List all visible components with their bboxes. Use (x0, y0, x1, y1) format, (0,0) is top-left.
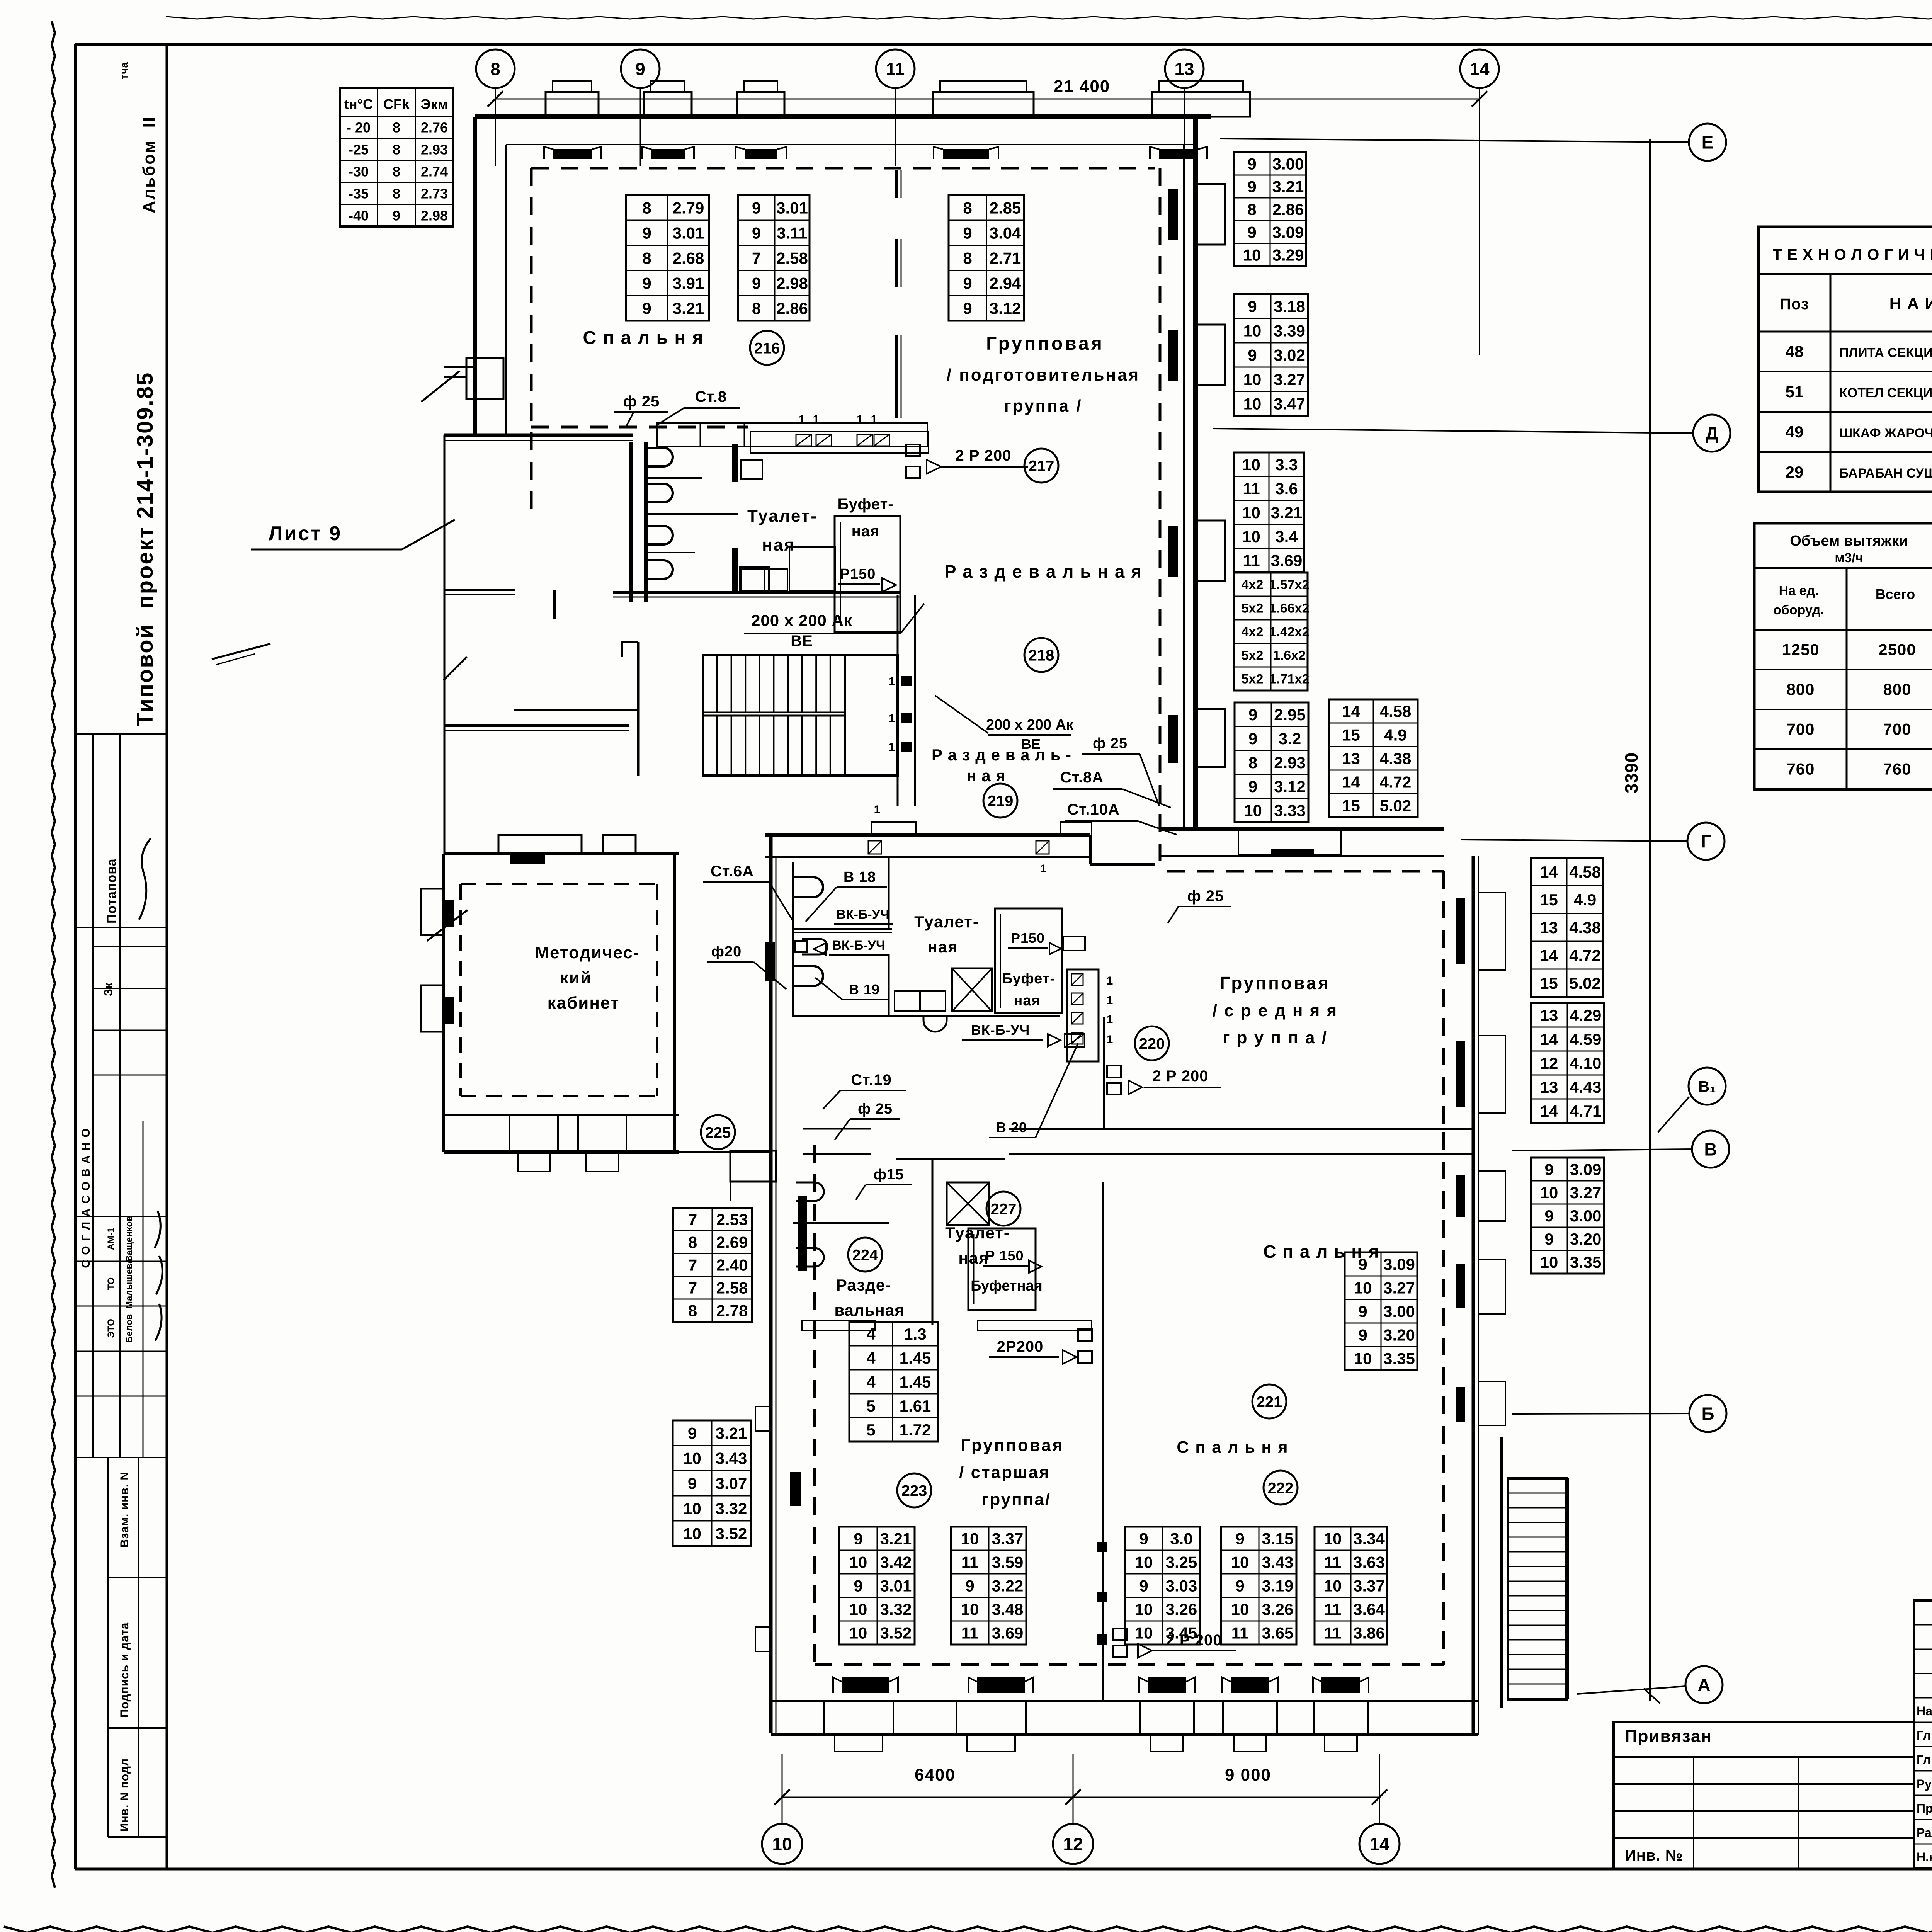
svg-text:1.61: 1.61 (900, 1397, 931, 1415)
svg-text:5х2: 5х2 (1242, 672, 1264, 687)
svg-text:2.40: 2.40 (716, 1256, 748, 1274)
svg-text:г р у п п а /: г р у п п а / (1223, 1028, 1328, 1047)
svg-text:Альбом II: Альбом II (139, 116, 158, 213)
svg-text:3.25: 3.25 (1166, 1553, 1197, 1571)
svg-text:1.72: 1.72 (900, 1421, 931, 1439)
bottom wall windows (824, 1701, 893, 1735)
svg-text:3.91: 3.91 (673, 274, 704, 293)
svg-text:Привязан: Привязан (1625, 1727, 1712, 1746)
svg-text:ПЛИТА СЕКЦИОННАЯ ПЭСМ-4ШБ: ПЛИТА СЕКЦИОННАЯ ПЭСМ-4ШБ (1839, 345, 1932, 360)
svg-text:2.53: 2.53 (716, 1211, 748, 1229)
svg-text:ВК-Б-УЧ: ВК-Б-УЧ (971, 1022, 1030, 1038)
svg-text:9: 9 (752, 199, 761, 217)
svg-text:9: 9 (963, 299, 972, 318)
svg-text:2 Р 200: 2 Р 200 (1153, 1068, 1209, 1085)
left wall radiator long (227) (798, 1196, 807, 1271)
svg-text:11: 11 (1243, 480, 1260, 498)
svg-text:9: 9 (752, 274, 761, 293)
svg-text:9: 9 (642, 224, 651, 242)
svg-text:СFk: СFk (383, 96, 410, 112)
svg-text:С п а л ь н я: С п а л ь н я (583, 328, 704, 348)
axis 14 (bottom) (1359, 1824, 1400, 1864)
svg-text:10: 10 (1242, 456, 1260, 474)
svg-text:4.43: 4.43 (1570, 1078, 1602, 1096)
svg-text:3.21: 3.21 (880, 1530, 912, 1548)
svg-text:3.35: 3.35 (1570, 1253, 1602, 1271)
svg-text:3.86: 3.86 (1353, 1624, 1385, 1642)
svg-text:2.58: 2.58 (716, 1279, 748, 1297)
svg-text:Нач.отд.: Нач.отд. (1917, 1704, 1932, 1718)
svg-text:9: 9 (1544, 1230, 1553, 1248)
svg-text:1: 1 (1040, 862, 1047, 875)
svg-text:1.6х2: 1.6х2 (1273, 648, 1306, 663)
svg-text:3.63: 3.63 (1353, 1553, 1385, 1571)
svg-text:9: 9 (635, 59, 645, 79)
svg-text:220: 220 (1139, 1035, 1165, 1052)
svg-text:8: 8 (393, 142, 400, 158)
svg-text:БАРАБАН СУШИЛЬНЫЙ КП-307: БАРАБАН СУШИЛЬНЫЙ КП-307 (1839, 466, 1932, 481)
svg-text:3.45: 3.45 (1166, 1624, 1197, 1642)
svg-text:4.59: 4.59 (1570, 1030, 1602, 1048)
left wall radiator upper (765, 942, 775, 981)
svg-text:3.59: 3.59 (992, 1553, 1024, 1571)
svg-text:11: 11 (1324, 1553, 1341, 1571)
svg-text:7: 7 (688, 1279, 697, 1297)
svg-text:700: 700 (1786, 720, 1815, 738)
svg-text:А: А (1697, 1675, 1710, 1695)
svg-text:1.66х2: 1.66х2 (1269, 601, 1310, 616)
svg-text:ф 25: ф 25 (858, 1101, 893, 1117)
svg-text:4.72: 4.72 (1380, 773, 1412, 791)
svg-text:15: 15 (1342, 726, 1360, 744)
svg-text:9: 9 (393, 208, 400, 224)
svg-text:кий: кий (560, 968, 592, 987)
svg-text:Р150: Р150 (1011, 930, 1045, 946)
svg-text:9: 9 (1139, 1530, 1148, 1548)
svg-text:В₁: В₁ (1698, 1078, 1716, 1095)
svg-text:4: 4 (866, 1373, 876, 1391)
suite stalls (793, 877, 823, 897)
svg-text:4.38: 4.38 (1380, 750, 1412, 768)
axis 8 (top) (476, 49, 515, 88)
room 222 circle (1264, 1471, 1298, 1505)
svg-text:224: 224 (852, 1247, 878, 1264)
svg-text:3.26: 3.26 (1166, 1600, 1197, 1619)
svg-text:2.71: 2.71 (990, 249, 1021, 267)
svg-text:5.02: 5.02 (1569, 974, 1601, 992)
svg-text:Р а з д е в а л ь -: Р а з д е в а л ь - (932, 746, 1071, 764)
svg-text:11: 11 (886, 59, 905, 79)
buffetnaya 221 box (968, 1228, 1036, 1310)
svg-text:13: 13 (1540, 1078, 1558, 1096)
table axis G right (1531, 858, 1603, 997)
svg-text:5х2: 5х2 (1242, 601, 1264, 616)
svg-text:1: 1 (1107, 994, 1113, 1007)
svg-text:3.29: 3.29 (1272, 246, 1304, 264)
table room216 b (738, 195, 810, 321)
svg-text:ВК-Б-УЧ: ВК-Б-УЧ (836, 907, 889, 922)
svg-text:14: 14 (1540, 1030, 1558, 1048)
svg-text:ная: ная (1014, 993, 1040, 1009)
svg-text:9: 9 (642, 299, 651, 318)
svg-text:3.02: 3.02 (1274, 346, 1305, 364)
svg-text:оборуд.: оборуд. (1773, 603, 1824, 617)
axis 13 (top) (1165, 49, 1204, 88)
axis 9 (top) (621, 49, 660, 88)
svg-text:ЭТО: ЭТО (106, 1319, 116, 1338)
sidebar signature table (Potapova) (75, 733, 167, 735)
svg-text:Групповая: Групповая (986, 333, 1104, 354)
svg-text:/ с р е д н я я: / с р е д н я я (1213, 1001, 1338, 1020)
svg-text:9: 9 (963, 274, 972, 293)
left wall window (755, 1406, 771, 1431)
table x2 values (1234, 573, 1308, 690)
svg-text:3.07: 3.07 (716, 1475, 747, 1493)
svg-text:10: 10 (1242, 527, 1260, 546)
svg-text:219: 219 (988, 793, 1014, 810)
svg-text:Буфетная: Буфетная (971, 1278, 1043, 1294)
svg-text:3.19: 3.19 (1262, 1577, 1294, 1595)
svg-text:51: 51 (1786, 383, 1804, 401)
svg-text:10: 10 (1540, 1253, 1558, 1271)
svg-text:13: 13 (1342, 750, 1360, 768)
crossed box room 227 (947, 1182, 989, 1225)
svg-text:1: 1 (1107, 1013, 1113, 1026)
svg-text:Подпись и дата: Подпись и дата (118, 1622, 131, 1718)
svg-text:8: 8 (393, 164, 400, 180)
svg-text:3.64: 3.64 (1353, 1600, 1385, 1619)
svg-text:н а я: н а я (966, 767, 1006, 785)
svg-text:Разработ.: Разработ. (1917, 1826, 1932, 1840)
svg-text:4.29: 4.29 (1570, 1006, 1602, 1024)
svg-text:Туалет-: Туалет- (914, 913, 979, 931)
svg-text:3.43: 3.43 (1262, 1553, 1294, 1571)
stairs (main) (703, 655, 898, 776)
method cabinet walls (444, 852, 679, 855)
svg-text:ная: ная (762, 536, 795, 554)
svg-text:10: 10 (1135, 1624, 1153, 1642)
torn left paper edge (52, 21, 55, 1888)
bottom-block top wall (left part) (765, 833, 1090, 837)
svg-text:9: 9 (1139, 1577, 1148, 1595)
svg-text:5х2: 5х2 (1242, 648, 1264, 663)
axis 12 (bottom) (1053, 1824, 1093, 1864)
svg-text:11: 11 (1243, 551, 1260, 570)
svg-text:3.11: 3.11 (777, 224, 807, 242)
svg-text:Ст.19: Ст.19 (851, 1071, 892, 1088)
svg-text:3.33: 3.33 (1274, 801, 1306, 820)
svg-text:217: 217 (1029, 457, 1054, 474)
svg-text:/ старшая: / старшая (959, 1463, 1050, 1482)
svg-text:Лист 9: Лист 9 (269, 522, 342, 545)
svg-text:21 400: 21 400 (1054, 77, 1111, 96)
wall left of stairs (637, 642, 640, 776)
svg-text:3.42: 3.42 (880, 1553, 912, 1571)
svg-text:10: 10 (961, 1530, 979, 1548)
svg-text:- 20: - 20 (347, 120, 371, 136)
svg-text:14: 14 (1540, 946, 1558, 964)
svg-text:Объем вытяжки: Объем вытяжки (1790, 533, 1908, 549)
svg-text:14: 14 (1342, 773, 1360, 791)
svg-text:3.01: 3.01 (673, 224, 704, 242)
duct column with grilles (1067, 969, 1099, 1061)
svg-text:9: 9 (1247, 155, 1256, 173)
table 222 b (1221, 1527, 1296, 1645)
svg-text:10: 10 (1244, 801, 1262, 820)
svg-text:8: 8 (688, 1233, 697, 1252)
svg-text:223: 223 (901, 1482, 927, 1499)
svg-text:В 20: В 20 (996, 1119, 1027, 1135)
svg-text:4.9: 4.9 (1384, 726, 1406, 744)
svg-text:3.27: 3.27 (1383, 1279, 1415, 1297)
torn top paper edge (166, 17, 1932, 19)
svg-text:3.21: 3.21 (1271, 503, 1303, 522)
svg-text:4.38: 4.38 (1569, 918, 1601, 937)
svg-text:9: 9 (1358, 1303, 1367, 1321)
room 227 walls (896, 1158, 932, 1160)
svg-text:-35: -35 (349, 186, 369, 202)
svg-text:С п а л ь н я: С п а л ь н я (1177, 1438, 1288, 1457)
axis 14 (top) (1460, 49, 1499, 88)
svg-text:9: 9 (1544, 1160, 1553, 1179)
axis G (1687, 823, 1725, 860)
partition room 223/222 (1102, 1182, 1104, 1701)
right wall windows (1478, 893, 1505, 970)
svg-text:4: 4 (866, 1349, 876, 1367)
svg-text:ф 25: ф 25 (623, 393, 660, 410)
svg-text:Проверил: Проверил (1917, 1801, 1932, 1815)
benches room 224 (802, 1320, 875, 1330)
svg-text:1.45: 1.45 (900, 1349, 931, 1367)
svg-text:10: 10 (1243, 371, 1262, 389)
svg-text:800: 800 (1786, 680, 1815, 699)
svg-text:3.32: 3.32 (880, 1600, 912, 1619)
svg-text:Е: Е (1702, 133, 1714, 153)
svg-text:760: 760 (1786, 760, 1815, 778)
svg-text:2Р200: 2Р200 (997, 1338, 1044, 1355)
dashed loop bottom block (813, 1145, 816, 1665)
svg-text:14: 14 (1369, 1834, 1389, 1854)
room 220 circle (1135, 1026, 1169, 1060)
svg-text:ШКАФ ЖАРОЧНЫЙ СЕКЦИОННЫЙ ИЖЭСМ: ШКАФ ЖАРОЧНЫЙ СЕКЦИОННЫЙ ИЖЭСМ-2 (1839, 425, 1932, 440)
table room216 a (626, 195, 709, 321)
bottom wall of top-right block (1160, 827, 1444, 831)
privyazan box (1614, 1722, 1914, 1869)
suite outer walls (792, 862, 794, 1017)
svg-text:ная: ная (958, 1249, 989, 1267)
svg-text:Н.контроль: Н.контроль (1917, 1850, 1932, 1864)
svg-text:9: 9 (688, 1475, 697, 1493)
svg-text:10: 10 (1354, 1279, 1372, 1297)
svg-text:3.52: 3.52 (880, 1624, 912, 1642)
svg-text:8: 8 (963, 249, 972, 267)
axis 10 (bottom) (762, 1824, 802, 1864)
svg-text:3.47: 3.47 (1274, 395, 1305, 413)
svg-text:1: 1 (874, 803, 881, 816)
svg-text:12: 12 (1063, 1834, 1083, 1854)
svg-text:218: 218 (1029, 647, 1054, 664)
svg-text:1: 1 (813, 413, 820, 426)
svg-text:3.39: 3.39 (1274, 322, 1305, 340)
svg-text:4.72: 4.72 (1569, 946, 1601, 964)
svg-text:3.12: 3.12 (990, 299, 1021, 318)
svg-text:200 х 200 Ак: 200 х 200 Ак (751, 611, 852, 629)
svg-text:10: 10 (1243, 246, 1261, 264)
svg-text:3.27: 3.27 (1570, 1184, 1602, 1202)
svg-text:10: 10 (1324, 1577, 1342, 1595)
svg-text:1: 1 (799, 413, 805, 426)
vertical dim line 3390 (1649, 139, 1651, 1701)
svg-text:Всего: Всего (1876, 586, 1915, 602)
table 222 a (1125, 1527, 1200, 1645)
svg-text:8: 8 (642, 199, 651, 217)
svg-text:Т Е Х Н О Л О Г И Ч Е С К О Е: Т Е Х Н О Л О Г И Ч Е С К О Е О Б О Р У … (1773, 246, 1932, 263)
toilet partitions black stubs (732, 444, 738, 482)
table axis V1 (1531, 1003, 1604, 1123)
svg-text:10: 10 (1231, 1600, 1249, 1619)
svg-text:11: 11 (961, 1553, 978, 1571)
svg-text:ф20: ф20 (711, 944, 742, 960)
sidebar approval block (soglasovano) (75, 927, 167, 928)
svg-text:7: 7 (688, 1256, 697, 1274)
room 217 circle (1024, 449, 1058, 483)
svg-text:группа /: группа / (1004, 396, 1082, 415)
svg-text:221: 221 (1257, 1393, 1282, 1410)
axis A (1685, 1666, 1723, 1703)
axis 11 (top) (876, 49, 915, 88)
right wall radiators (1168, 189, 1178, 240)
svg-text:Гл.инж.пр: Гл.инж.пр (1917, 1753, 1932, 1767)
svg-text:1: 1 (889, 741, 895, 753)
svg-text:15: 15 (1540, 891, 1558, 909)
svg-text:4: 4 (866, 1325, 876, 1343)
svg-text:В 19: В 19 (849, 981, 880, 997)
svg-text:1: 1 (1107, 975, 1113, 987)
right outer wall of top block (1193, 117, 1198, 829)
svg-text:227: 227 (991, 1201, 1017, 1218)
windows on bottom wall (510, 1115, 558, 1152)
svg-text:tн°С: tн°С (344, 96, 373, 112)
table left outer (bottom) (673, 1420, 751, 1546)
svg-text:8: 8 (393, 120, 400, 136)
climate data table (340, 88, 453, 226)
svg-text:8: 8 (1248, 753, 1257, 772)
svg-text:Ст.8А: Ст.8А (1060, 769, 1104, 786)
svg-text:12: 12 (1540, 1054, 1558, 1072)
table 223 a (839, 1527, 915, 1645)
svg-text:5: 5 (866, 1397, 875, 1415)
svg-text:Туалет-: Туалет- (945, 1224, 1010, 1242)
bottom block bottom wall (771, 1700, 1478, 1702)
left long wall (444, 435, 446, 855)
svg-text:3.34: 3.34 (1353, 1530, 1385, 1548)
svg-text:3.4: 3.4 (1275, 527, 1298, 546)
partition wall y1530 left (444, 589, 515, 591)
svg-text:ВЕ: ВЕ (1021, 736, 1041, 752)
svg-text:ная: ная (852, 523, 880, 540)
svg-text:ф 25: ф 25 (1093, 735, 1128, 752)
svg-text:Ващенков: Ващенков (124, 1216, 134, 1262)
svg-text:9: 9 (965, 1577, 974, 1595)
svg-text:10: 10 (1242, 503, 1260, 522)
svg-text:Р 150: Р 150 (985, 1248, 1024, 1264)
dashed loop (461, 883, 657, 885)
svg-text:Зк: Зк (102, 982, 115, 996)
svg-text:3.37: 3.37 (1353, 1577, 1385, 1595)
svg-text:Ст.10А: Ст.10А (1067, 801, 1119, 818)
bottom dimension lines 6400 / 9000 (782, 1797, 1379, 1798)
svg-text:3.18: 3.18 (1274, 298, 1305, 316)
svg-text:3.69: 3.69 (992, 1624, 1024, 1642)
svg-text:10: 10 (961, 1600, 979, 1619)
svg-text:кабинет: кабинет (548, 993, 620, 1012)
svg-text:9: 9 (963, 224, 972, 242)
svg-text:1.3: 1.3 (904, 1325, 926, 1343)
bottom wall radiators (842, 1677, 889, 1693)
svg-text:700: 700 (1883, 720, 1911, 738)
svg-text:3.27: 3.27 (1274, 371, 1305, 389)
svg-text:3.09: 3.09 (1570, 1160, 1602, 1179)
svg-text:2.93: 2.93 (421, 142, 448, 158)
radiator bars below top wall (553, 149, 592, 159)
svg-text:2.79: 2.79 (673, 199, 704, 217)
room 225 circle (701, 1115, 735, 1149)
buffet counter corridor (657, 423, 927, 446)
svg-text:10: 10 (849, 1553, 867, 1571)
svg-text:3.37: 3.37 (992, 1530, 1024, 1548)
svg-text:3.09: 3.09 (1383, 1255, 1415, 1274)
svg-text:2.74: 2.74 (421, 164, 448, 180)
svg-text:1250: 1250 (1782, 641, 1819, 659)
svg-text:9 000: 9 000 (1225, 1765, 1271, 1784)
svg-text:1: 1 (1107, 1033, 1113, 1046)
svg-text:3.2: 3.2 (1279, 730, 1301, 748)
svg-text:Буфет-: Буфет- (837, 496, 893, 513)
svg-text:3.12: 3.12 (1274, 777, 1306, 796)
svg-text:3.3: 3.3 (1275, 456, 1298, 474)
windows on top wall (498, 835, 582, 854)
svg-text:1: 1 (889, 675, 895, 688)
svg-text:ф15: ф15 (874, 1167, 904, 1183)
svg-text:2.95: 2.95 (1274, 706, 1306, 724)
wall step right of 219 (1089, 835, 1092, 864)
svg-text:9: 9 (1247, 223, 1256, 241)
svg-text:8: 8 (963, 199, 972, 217)
svg-text:С О Г Л А С О В А Н О: С О Г Л А С О В А Н О (80, 1128, 92, 1268)
svg-text:3.21: 3.21 (716, 1424, 747, 1442)
svg-text:/ подготовительная: / подготовительная (947, 366, 1140, 384)
svg-text:9: 9 (1235, 1577, 1244, 1595)
table mid right a (1234, 152, 1306, 266)
svg-text:2.69: 2.69 (716, 1233, 748, 1252)
axis V1 (1689, 1068, 1726, 1105)
svg-text:вальная: вальная (834, 1301, 904, 1319)
svg-text:3.09: 3.09 (1272, 223, 1304, 241)
svg-text:ВЕ: ВЕ (791, 633, 813, 650)
svg-text:Ст.6А: Ст.6А (711, 863, 754, 880)
table room217 (949, 195, 1024, 321)
svg-text:13: 13 (1540, 1006, 1558, 1024)
svg-text:10: 10 (1354, 1350, 1372, 1368)
svg-text:1.71х2: 1.71х2 (1269, 672, 1310, 687)
svg-text:10: 10 (1243, 395, 1262, 413)
toilet 227 walls (896, 1158, 1005, 1160)
svg-text:4.58: 4.58 (1569, 863, 1601, 881)
svg-text:Н А И М Е Н О В А Н И Е: Н А И М Е Н О В А Н И Е (1889, 294, 1932, 313)
svg-text:8: 8 (642, 249, 651, 267)
table 224 (849, 1322, 938, 1442)
svg-text:3390: 3390 (1621, 752, 1641, 793)
